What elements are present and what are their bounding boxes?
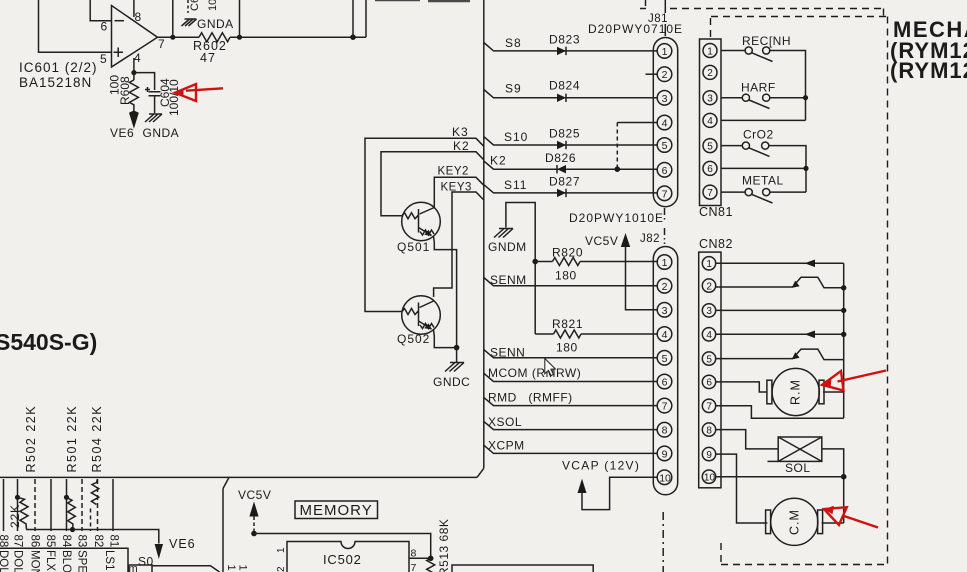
diode arrow on pin1 wire bbox=[805, 260, 816, 268]
switch REC INH bbox=[745, 47, 752, 54]
red arrow R.M tip fill bbox=[822, 379, 831, 389]
dashed J81 box fragment bbox=[640, 0, 647, 9]
svg-text:BLO: BLO bbox=[60, 550, 72, 572]
Q501 internal zigzag bbox=[420, 230, 434, 235]
svg-text:VC5V: VC5V bbox=[238, 488, 271, 502]
CN81 pin 2 bbox=[703, 65, 717, 79]
svg-text:1: 1 bbox=[662, 257, 668, 269]
dashed MECHA border bottom bbox=[721, 564, 888, 566]
svg-text:3: 3 bbox=[662, 305, 668, 317]
wire C604 to ground bbox=[154, 96, 156, 113]
R.M left brush bbox=[767, 380, 772, 404]
resistor R820 body bbox=[553, 258, 580, 266]
connector J82 body bbox=[653, 247, 677, 495]
svg-text:180: 180 bbox=[556, 341, 578, 355]
wire Q502 emitter down bbox=[434, 330, 457, 348]
svg-text:5: 5 bbox=[707, 141, 713, 152]
svg-text:2: 2 bbox=[707, 68, 713, 79]
svg-text:S8: S8 bbox=[505, 36, 522, 50]
J81 pin 2 bbox=[657, 67, 672, 82]
VCAP arrow bbox=[578, 479, 587, 493]
svg-text:85: 85 bbox=[44, 535, 56, 548]
svg-text:1: 1 bbox=[237, 565, 249, 571]
wire MCOM bbox=[484, 373, 657, 381]
svg-text:10: 10 bbox=[207, 0, 219, 11]
svg-text:84: 84 bbox=[60, 535, 72, 548]
lower transistor arrowhead bbox=[792, 352, 800, 359]
switch CrO2 bbox=[742, 142, 749, 149]
node pin4 dot bbox=[131, 70, 136, 75]
svg-text:R501 22K: R501 22K bbox=[65, 405, 79, 473]
J81 pin 2 stub bbox=[646, 73, 657, 75]
red annotation arrow at C.M bbox=[824, 507, 847, 525]
wire main vertical bus bbox=[483, 0, 485, 468]
svg-text:7: 7 bbox=[662, 401, 668, 413]
resistor R513 body bbox=[427, 558, 435, 572]
red annotation arrow at R.M bbox=[822, 371, 843, 391]
wire vertical right rail bbox=[843, 263, 845, 418]
node output dot bbox=[170, 35, 175, 40]
MEMORY label box bbox=[295, 501, 378, 519]
CN81 pin 5 bbox=[703, 139, 717, 153]
J82 pin 10 bbox=[657, 470, 672, 485]
wire Q501 emitter down bbox=[434, 237, 457, 348]
connector J81 body bbox=[653, 38, 677, 207]
J82 pin 9 bbox=[657, 446, 672, 461]
node K2/pin4 dot bbox=[615, 166, 621, 172]
wire VC5V to pin3 bbox=[626, 247, 657, 310]
svg-text:6: 6 bbox=[662, 165, 668, 177]
svg-text:LS1: LS1 bbox=[103, 550, 115, 570]
red arrow tail bbox=[186, 88, 223, 90]
svg-text:2: 2 bbox=[706, 281, 712, 292]
transistor Q502 circle bbox=[402, 296, 441, 335]
wire S0 box to memory box bbox=[152, 566, 220, 572]
svg-text:7: 7 bbox=[158, 37, 165, 51]
IC502 body bbox=[287, 542, 409, 572]
svg-text:86: 86 bbox=[29, 535, 41, 548]
svg-text:Q501: Q501 bbox=[397, 240, 430, 254]
svg-text:METAL: METAL bbox=[742, 174, 784, 188]
svg-text:D823: D823 bbox=[549, 33, 580, 47]
node rail dot pin2 path bbox=[841, 285, 846, 290]
wire XCPM bbox=[484, 445, 657, 453]
resistor R501 body bbox=[67, 497, 76, 530]
wire SENM bbox=[484, 278, 657, 286]
svg-text:S10: S10 bbox=[504, 130, 528, 144]
svg-text:81: 81 bbox=[108, 535, 120, 548]
svg-text:22K: 22K bbox=[8, 504, 22, 528]
dashed MECHA border right bbox=[887, 17, 889, 565]
CN82 pin 1 bbox=[702, 257, 715, 270]
svg-text:RMD (RMFF): RMD (RMFF) bbox=[488, 391, 573, 405]
memory box left notch diagonal bbox=[223, 477, 229, 488]
J82 pin 7 bbox=[657, 398, 672, 413]
svg-text:5: 5 bbox=[662, 353, 668, 365]
connector CN81 body bbox=[700, 39, 722, 206]
wire SOL to rail bbox=[822, 449, 844, 523]
capacitor C60x top fragment lead bbox=[187, 0, 189, 13]
Q501 collector bbox=[420, 208, 435, 215]
svg-text:1: 1 bbox=[662, 46, 668, 58]
wire bus to memory-box diagonal bbox=[477, 468, 484, 477]
svg-text:S11: S11 bbox=[504, 178, 527, 192]
svg-text:8: 8 bbox=[135, 10, 142, 24]
svg-text:GNDA: GNDA bbox=[143, 126, 180, 140]
svg-text:S540S-G): S540S-G) bbox=[0, 329, 97, 355]
CN82 pin 8 bbox=[702, 423, 715, 436]
svg-text:K2: K2 bbox=[453, 139, 470, 153]
wire CN82 pin7 loop bbox=[716, 406, 844, 418]
svg-text:CN82: CN82 bbox=[699, 237, 733, 251]
svg-text:D20PWY1010E: D20PWY1010E bbox=[569, 211, 664, 225]
wire non-inverting input bbox=[39, 0, 112, 52]
svg-text:CrO2: CrO2 bbox=[743, 128, 774, 142]
wire to GNDC bbox=[456, 348, 458, 362]
wire VCAP to pin10 bbox=[582, 477, 657, 509]
C.M right brush bbox=[818, 510, 823, 534]
dashed MECHA border top bbox=[711, 16, 888, 18]
svg-text:4: 4 bbox=[706, 330, 712, 341]
svg-text:DOL: DOL bbox=[12, 550, 24, 572]
svg-text:180: 180 bbox=[555, 269, 577, 283]
resistor R504 body bbox=[91, 479, 98, 505]
svg-text:4: 4 bbox=[662, 118, 668, 130]
dash-dot board line below J82 bbox=[662, 512, 664, 572]
CN82 pin 7 bbox=[702, 399, 715, 412]
CN81 pin 4 bbox=[703, 113, 717, 127]
svg-text:HARF: HARF bbox=[741, 81, 776, 95]
svg-text:REC[NH: REC[NH bbox=[742, 34, 791, 48]
wire R821 to pin4 bbox=[581, 333, 657, 335]
op-amp plus sign bbox=[114, 48, 124, 58]
wire CN82 pin4 bbox=[716, 333, 844, 335]
svg-text:6: 6 bbox=[707, 164, 713, 175]
svg-text:R821: R821 bbox=[552, 317, 583, 331]
motor C.M circle bbox=[771, 498, 818, 545]
wire KEY2 bbox=[434, 177, 484, 208]
J81 pin 6 bbox=[657, 163, 672, 178]
wire VC5V dashes bbox=[253, 517, 255, 534]
J82 pin 3 bbox=[657, 303, 672, 318]
Q501 emitter arrowhead bbox=[424, 230, 432, 236]
S0 small box bbox=[129, 565, 153, 572]
svg-text:4: 4 bbox=[662, 329, 668, 341]
svg-text:J82: J82 bbox=[640, 233, 660, 245]
svg-text:6: 6 bbox=[101, 20, 108, 34]
wire S11 bbox=[484, 185, 657, 193]
R.M right brush bbox=[819, 380, 824, 404]
svg-text:D827: D827 bbox=[549, 175, 580, 189]
connector box edge bbox=[0, 548, 128, 572]
top edge text remnant bbox=[375, 0, 470, 1]
wire CN81 pin3 to switch bbox=[721, 97, 742, 99]
CN82 pin 4 bbox=[702, 328, 715, 341]
red arrow C.M tip fill bbox=[824, 506, 834, 515]
transistor Q501 circle bbox=[402, 202, 441, 241]
CN81 pin 1 bbox=[703, 44, 717, 58]
wire CN81 pin4 bbox=[721, 119, 806, 121]
memory box left border bbox=[222, 489, 224, 572]
svg-text:Q502: Q502 bbox=[397, 332, 430, 346]
wire R820 left bbox=[535, 261, 552, 263]
wire R821 left bbox=[535, 333, 553, 335]
svg-text:R820: R820 bbox=[552, 246, 583, 260]
svg-text:8: 8 bbox=[662, 425, 668, 437]
wire column 81 bbox=[112, 479, 114, 531]
wire C606 lead up bbox=[172, 0, 174, 37]
Q502 base bar bbox=[418, 303, 420, 327]
wire S10 bbox=[484, 137, 657, 145]
node VE6 line dot bbox=[70, 527, 75, 532]
wire CN82 pin3 bbox=[716, 309, 844, 311]
svg-text:R513 68K: R513 68K bbox=[437, 519, 451, 572]
CN82 pin 2 bbox=[702, 279, 715, 292]
svg-text:2: 2 bbox=[276, 566, 287, 572]
svg-text:S9: S9 bbox=[505, 82, 522, 96]
svg-text:7: 7 bbox=[411, 562, 417, 572]
wire CN81 pin5 to switch bbox=[721, 145, 742, 147]
svg-text:K3: K3 bbox=[452, 125, 469, 139]
svg-text:m: m bbox=[129, 563, 138, 572]
node emitters junction dot bbox=[454, 345, 460, 351]
svg-text:7: 7 bbox=[662, 188, 668, 200]
Q502 internal zigzag bbox=[420, 324, 434, 329]
svg-text:XCPM: XCPM bbox=[488, 439, 525, 453]
svg-text:GNDC: GNDC bbox=[433, 375, 470, 389]
svg-text:R.M: R.M bbox=[789, 379, 803, 405]
CN82 pin 5 bbox=[702, 352, 715, 365]
node rail/pin10 dot bbox=[841, 474, 847, 480]
svg-text:3: 3 bbox=[707, 94, 713, 105]
C.M left brush bbox=[766, 510, 771, 534]
svg-text:3: 3 bbox=[706, 306, 712, 317]
svg-text:D825: D825 bbox=[549, 127, 580, 141]
VE6 (bottom) arrow bbox=[155, 544, 163, 559]
svg-text:47: 47 bbox=[200, 51, 216, 65]
bottom-right box bbox=[452, 565, 593, 572]
wire SENN bbox=[484, 350, 657, 358]
red arrow C604 tip fill bbox=[175, 89, 184, 97]
wire C.M right to rail bbox=[822, 522, 844, 524]
svg-text:4: 4 bbox=[707, 116, 713, 127]
dashed top-right box fragment bbox=[670, 9, 884, 17]
Q502 collector bbox=[420, 301, 434, 308]
wire CN82 pin5 bbox=[716, 358, 793, 360]
Q502 base resistor squiggle bbox=[402, 309, 419, 315]
SOL stub mark bbox=[768, 460, 779, 462]
J82 pin 4 bbox=[657, 327, 672, 342]
wire CN81 pin7 to switch bbox=[721, 191, 745, 193]
VC5V arrow bbox=[621, 233, 630, 247]
J81 pin 4 bbox=[657, 115, 672, 130]
wire R820 to pin1 bbox=[580, 261, 657, 263]
svg-text:7: 7 bbox=[706, 402, 712, 413]
dashed MECHA border left stubs bbox=[711, 18, 722, 565]
resistor R602 body bbox=[199, 33, 230, 42]
wire CrO2 out bbox=[769, 146, 806, 193]
svg-text:5: 5 bbox=[100, 52, 107, 66]
wire CN82 pin9 to C.M bbox=[716, 454, 768, 523]
svg-text:VE6: VE6 bbox=[110, 126, 134, 140]
resistor R502 body bbox=[18, 497, 29, 529]
diode D827 bbox=[557, 189, 566, 197]
transistor (driver) lower bbox=[793, 349, 844, 360]
node R501 tap dot bbox=[64, 495, 69, 500]
svg-text:SOL: SOL bbox=[785, 461, 811, 475]
transistor (driver) upper bbox=[793, 277, 844, 288]
wire K2 left bbox=[381, 152, 484, 216]
svg-text:R504 22K: R504 22K bbox=[90, 405, 104, 473]
switch HARF bbox=[742, 94, 749, 101]
wire CN82 pin2 bbox=[716, 286, 793, 288]
wire op-amp output bbox=[158, 36, 367, 38]
wire switch2 out bbox=[770, 97, 806, 99]
wire column 87 bbox=[17, 479, 19, 531]
svg-text:2: 2 bbox=[662, 69, 668, 81]
wire column 83 bbox=[81, 479, 83, 531]
wire R.M right to rail bbox=[823, 391, 844, 393]
diode D826 (points left) bbox=[557, 165, 566, 173]
resistor R608 body bbox=[129, 80, 138, 112]
svg-text:CN81: CN81 bbox=[699, 205, 733, 219]
upper transistor arrowhead bbox=[792, 281, 800, 288]
wire R504 lead down bbox=[90, 509, 92, 532]
motor R.M circle bbox=[772, 368, 819, 415]
node CrO2 junction dot bbox=[803, 166, 808, 171]
diode D825 bbox=[557, 141, 566, 149]
svg-text:1: 1 bbox=[706, 259, 712, 270]
capacitor C604 plates bbox=[145, 87, 161, 96]
red annotation arrow at C604 bbox=[175, 84, 196, 101]
svg-text:5: 5 bbox=[706, 354, 712, 365]
node top-mid dot bbox=[350, 34, 356, 40]
Q501 base resistor squiggle bbox=[402, 213, 419, 219]
CN82 pin 9 bbox=[702, 447, 715, 460]
svg-text:MON: MON bbox=[29, 550, 41, 572]
solenoid SOL box bbox=[778, 437, 822, 461]
svg-text:MCOM (RMRW): MCOM (RMRW) bbox=[488, 366, 581, 380]
ground GNDA (C604) bbox=[145, 114, 162, 122]
wire J81 board stub bbox=[664, 0, 666, 36]
svg-text:1: 1 bbox=[707, 46, 713, 57]
svg-text:R608: R608 bbox=[118, 76, 132, 105]
J82 pin 5 bbox=[657, 351, 672, 366]
VE6 arrow bbox=[130, 111, 139, 127]
wire column 82 bbox=[97, 479, 99, 531]
svg-text:GNDM: GNDM bbox=[488, 240, 527, 254]
node R502 tap dot bbox=[15, 495, 20, 500]
J82 pin 8 bbox=[657, 422, 672, 437]
svg-text:D826: D826 bbox=[545, 151, 576, 165]
wire CN81 pin1 to switch bbox=[721, 50, 745, 52]
red arrow R.M tail bbox=[838, 371, 887, 382]
svg-text:10: 10 bbox=[659, 472, 671, 484]
svg-text:GNDA: GNDA bbox=[197, 17, 234, 31]
wire GNDM loop bbox=[506, 203, 535, 335]
SOL box diagonals bbox=[778, 437, 822, 461]
svg-text:6: 6 bbox=[662, 377, 668, 389]
wire pin 4 bbox=[133, 58, 135, 80]
svg-text:2: 2 bbox=[662, 281, 668, 293]
CN82 pin 3 bbox=[702, 304, 715, 317]
svg-text:VCAP (12V): VCAP (12V) bbox=[562, 459, 640, 473]
pin 8 wire bbox=[133, 0, 135, 17]
diode D824 bbox=[557, 94, 566, 102]
J82 pin 6 bbox=[657, 374, 672, 389]
svg-text:10: 10 bbox=[704, 473, 716, 484]
node VC5V dot bbox=[251, 531, 257, 537]
wire METAL out bbox=[770, 191, 806, 193]
CN81 pin 7 bbox=[703, 185, 717, 199]
wire to C604 bbox=[134, 73, 155, 90]
node R602 right dot bbox=[237, 35, 242, 40]
red arrow C.M tail bbox=[844, 516, 878, 528]
svg-text:DOL: DOL bbox=[0, 550, 9, 572]
svg-text:K2: K2 bbox=[490, 154, 507, 168]
svg-text:87: 87 bbox=[12, 535, 24, 548]
ground GNDM bbox=[494, 229, 513, 238]
node rail dot pin4 bbox=[841, 332, 846, 337]
svg-text:(RYM12: (RYM12 bbox=[890, 58, 967, 83]
svg-text:C6: C6 bbox=[189, 0, 201, 11]
svg-text:4: 4 bbox=[134, 51, 141, 65]
svg-text:88: 88 bbox=[0, 535, 9, 548]
J81 pin 1 bbox=[657, 44, 672, 59]
wire CN81 pin6 bbox=[721, 167, 806, 169]
svg-text:FLX: FLX bbox=[44, 550, 56, 571]
svg-text:KEY2: KEY2 bbox=[438, 166, 469, 178]
svg-text:VE6: VE6 bbox=[169, 537, 196, 551]
J81 pin 3 bbox=[657, 91, 672, 106]
wire IC502 pin8 stub bbox=[409, 557, 431, 559]
diode arrow on pin4 wire bbox=[805, 331, 816, 339]
wire CN82 pin1 bbox=[716, 262, 844, 264]
svg-text:VC5V: VC5V bbox=[585, 234, 618, 248]
op-amp minus sign bbox=[115, 20, 125, 22]
wire K3 bbox=[365, 138, 484, 311]
svg-text:SPE: SPE bbox=[76, 550, 88, 572]
wire J81 pin4 to K2 net bbox=[617, 122, 656, 124]
svg-text:100/10: 100/10 bbox=[167, 79, 181, 116]
svg-text:6: 6 bbox=[706, 378, 712, 389]
wire VC5V to R513 bbox=[254, 534, 431, 559]
wire column 85 bbox=[50, 479, 52, 531]
wire S9 bbox=[484, 90, 657, 98]
svg-text:3: 3 bbox=[662, 93, 668, 105]
svg-text:5: 5 bbox=[662, 140, 668, 152]
CN82 pin 6 bbox=[702, 375, 715, 388]
svg-text:C.M: C.M bbox=[788, 509, 802, 535]
svg-text:R502 22K: R502 22K bbox=[24, 405, 38, 473]
diode D823 bbox=[557, 47, 566, 55]
node HARF junction dot bbox=[803, 95, 808, 100]
Q501 emitter with arrow bbox=[419, 228, 432, 236]
Q501 base bar bbox=[418, 209, 420, 233]
wire column 88 bbox=[3, 479, 5, 531]
Q502 emitter with arrow bbox=[419, 321, 432, 329]
J81 pin 7 bbox=[657, 186, 672, 201]
svg-text:9: 9 bbox=[662, 448, 668, 460]
svg-text:9: 9 bbox=[706, 450, 712, 461]
svg-text:BA15218N: BA15218N bbox=[19, 75, 92, 90]
svg-text:7: 7 bbox=[707, 188, 713, 199]
svg-text:SENM: SENM bbox=[490, 273, 527, 287]
ground GNDC bbox=[445, 363, 464, 372]
wire CN82 pin6 to R.M bbox=[716, 382, 768, 392]
svg-text:83: 83 bbox=[76, 535, 88, 548]
wire switch1 to vertical bbox=[770, 51, 806, 121]
